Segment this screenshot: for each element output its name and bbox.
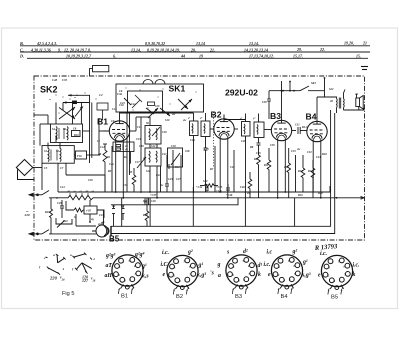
- v-wire 112: [111, 146, 113, 192]
- extra mid box with trimmer: [168, 148, 183, 167]
- socket B1: [112, 255, 143, 289]
- v-wire 258 res: [258, 150, 260, 155]
- svg-text:4w: 4w: [296, 148, 300, 151]
- scattered wafer dots: [49, 92, 96, 113]
- svg-text:B4: B4: [306, 112, 317, 122]
- frame border: [34, 76, 365, 240]
- svg-text:C20: C20: [151, 200, 156, 203]
- SK1 enclosure: [116, 80, 204, 113]
- Fig5 switch right (120/127V): [74, 254, 92, 273]
- osc coil box bottom: [145, 148, 161, 166]
- svg-text:4: 4: [62, 267, 65, 271]
- svg-text:S11: S11: [146, 170, 151, 173]
- SK1 switch arms: [124, 98, 192, 118]
- table row line 1: [20, 45, 370, 47]
- svg-text:C24: C24: [190, 139, 195, 142]
- aux switch diagonal: [57, 221, 65, 228]
- trim box 2: [76, 151, 87, 159]
- coil box S1/S2: [42, 146, 87, 164]
- vertical mid drop: [192, 187, 194, 226]
- svg-text:C38: C38: [123, 184, 128, 187]
- IFT1: [190, 113, 214, 192]
- svg-text:e: e: [268, 272, 271, 278]
- mains switch bottom: [42, 230, 49, 234]
- svg-text:C4a: C4a: [131, 103, 136, 106]
- svg-text:4a: 4a: [72, 191, 76, 194]
- svg-text:C2a: C2a: [109, 163, 114, 166]
- bus y=95.3: [68, 94, 90, 96]
- verticals SK2: [72, 104, 74, 125]
- svg-text:k,s: k,s: [142, 274, 149, 280]
- extra SK1 diagonals: [132, 95, 142, 108]
- svg-text:C27: C27: [176, 178, 181, 181]
- X switch arm 1: [59, 108, 75, 120]
- connecting wires left block: [34, 124, 109, 192]
- mains lead bottom: [29, 233, 42, 235]
- svg-text:C43: C43: [99, 214, 104, 217]
- svg-text:S10: S10: [165, 119, 170, 122]
- B1 wires: [103, 113, 194, 198]
- switch shaft dotted link: [213, 112, 215, 167]
- svg-text:B2: B2: [211, 110, 222, 120]
- coil 4: [60, 148, 61, 162]
- coupling cap: [298, 127, 307, 134]
- tube B1: [109, 121, 129, 141]
- svg-text:C18: C18: [171, 145, 176, 148]
- mains lead top: [29, 191, 49, 236]
- switch arrowheads: [63, 94, 83, 119]
- svg-text:22.: 22.: [319, 47, 325, 52]
- svg-text:20.: 20.: [190, 47, 196, 52]
- svg-text:C31: C31: [295, 124, 300, 127]
- svg-text:e: e: [318, 273, 321, 279]
- tap box on bus: [73, 101, 77, 104]
- svg-text:C48: C48: [52, 78, 58, 82]
- svg-text:17,13,74,18,12.: 17,13,74,18,12.: [249, 54, 274, 59]
- svg-text:C30: C30: [270, 144, 275, 147]
- bus B y=197.8: [49, 197, 68, 199]
- socket B2: [167, 255, 198, 289]
- svg-text:S19: S19: [155, 105, 160, 108]
- mains voltage label: [24, 210, 30, 218]
- svg-text:S14: S14: [175, 166, 180, 169]
- svg-text:4'': 4'': [199, 117, 203, 120]
- svg-text:26: 26: [92, 279, 96, 282]
- svg-text:4R: 4R: [97, 153, 101, 156]
- svg-text:19,20,: 19,20,: [344, 41, 354, 46]
- svg-text:d¹: d¹: [258, 263, 263, 269]
- svg-text:14,13,28,13,14: 14,13,28,13,14: [244, 47, 268, 52]
- diag arm: [75, 107, 83, 117]
- extra scattered tiny labels for texture: [56, 82, 334, 226]
- osc coil box top: [145, 126, 161, 145]
- v-wire 160: [160, 166, 162, 192]
- svg-text:R19: R19: [298, 194, 303, 197]
- svg-text:12,: 12,: [64, 47, 69, 52]
- tube B5: [92, 222, 111, 237]
- antenna plug diamond: [16, 160, 34, 180]
- svg-text:R21: R21: [45, 211, 50, 214]
- svg-text:g²: g²: [187, 250, 193, 256]
- wires above B5: [121, 198, 123, 227]
- svg-text:C22: C22: [156, 174, 161, 177]
- transformer S21: [336, 90, 365, 114]
- svg-text:4 65: 4 65: [85, 210, 91, 213]
- barretter ticks and labels: [70, 193, 88, 196]
- svg-text:4,30,11,3,36: 4,30,11,3,36: [30, 47, 51, 52]
- svg-text:B3: B3: [270, 111, 281, 121]
- svg-text:C13: C13: [112, 108, 117, 111]
- svg-text:S40: S40: [203, 180, 208, 183]
- svg-text:+C45: +C45: [216, 186, 223, 189]
- svg-text:F16: F16: [77, 155, 82, 158]
- svg-text:D.: D.: [19, 54, 24, 59]
- tube B3: [271, 120, 291, 140]
- svg-text:i.C.: i.C.: [161, 262, 169, 268]
- svg-text:4g: 4g: [90, 218, 94, 221]
- svg-text:k,g³: k,g³: [197, 273, 206, 279]
- svg-text:C16: C16: [139, 145, 144, 148]
- svg-text:48: 48: [124, 149, 128, 152]
- wire: [90, 69, 93, 76]
- svg-text:C2: C2: [99, 93, 103, 97]
- bus A y=192: [58, 191, 331, 193]
- svg-text:292U-02: 292U-02: [225, 88, 258, 98]
- svg-text:4': 4': [187, 117, 190, 120]
- svg-text:4x: 4x: [246, 192, 250, 195]
- v-wire 288.7 res: [288, 160, 290, 163]
- socket B3: [226, 255, 257, 289]
- svg-text:C39: C39: [88, 179, 93, 182]
- scattered tiny labels in mid area: [108, 150, 321, 204]
- svg-text:S12: S12: [151, 145, 156, 148]
- svg-text:C26: C26: [230, 166, 235, 169]
- svg-text:220: 220: [49, 276, 58, 281]
- v-wire 215: [214, 146, 216, 192]
- svg-text:k: k: [258, 272, 261, 278]
- svg-text:B4: B4: [281, 294, 289, 300]
- svg-text:B1: B1: [121, 294, 128, 300]
- svg-text:21: 21: [362, 41, 367, 46]
- horizontal resistor mid: [205, 184, 215, 188]
- B3 wires: [278, 81, 296, 198]
- svg-text:48: 48: [329, 100, 333, 103]
- bus y=90.7: [269, 90, 300, 92]
- svg-text:220: 220: [24, 213, 30, 217]
- svg-text:g: g: [217, 262, 221, 268]
- svg-text:10,19,29,3,12,7: 10,19,29,3,12,7: [66, 54, 92, 59]
- v-wire 167 cap: [166, 176, 168, 184]
- svg-text:+C46: +C46: [226, 194, 233, 197]
- coil box S3/S4: [51, 124, 83, 143]
- v-wire 181: [180, 155, 182, 192]
- coil 1: [56, 127, 57, 141]
- svg-text:+14b: +14b: [216, 190, 222, 193]
- arrow at right of bus B: [361, 196, 365, 199]
- v-wire 330: [329, 186, 331, 192]
- svg-text:B3: B3: [235, 294, 242, 300]
- svg-text:4': 4': [239, 118, 242, 121]
- bus D nested: [111, 110, 331, 226]
- svg-text:C.: C.: [20, 47, 24, 52]
- svg-text:R18: R18: [322, 153, 327, 156]
- svg-text:aT: aT: [106, 263, 113, 269]
- bus y=102.5: [63, 102, 90, 104]
- svg-text:R14: R14: [302, 126, 307, 129]
- IFT2: [242, 114, 272, 193]
- small box left of B1: [97, 103, 108, 110]
- caps pair: [60, 205, 64, 207]
- svg-text:+C44: +C44: [196, 186, 203, 189]
- coil 2: [67, 127, 68, 141]
- small parts on bus A: [143, 184, 230, 205]
- dropper box: [50, 198, 105, 234]
- svg-text:13,14,: 13,14,: [131, 47, 141, 52]
- svg-text:R13: R13: [284, 166, 289, 169]
- svg-text:R16: R16: [308, 170, 313, 173]
- table row line 3: [27, 57, 368, 59]
- svg-text:4F: 4F: [84, 191, 88, 194]
- svg-text:28,14,19,7,8.: 28,14,19,7,8.: [69, 47, 91, 52]
- svg-text:15.: 15.: [356, 53, 361, 58]
- v-wire 313 res: [312, 165, 314, 168]
- v-wire 303 res: [302, 165, 304, 168]
- svg-text:SK2: SK2: [40, 85, 58, 95]
- svg-text:S22: S22: [329, 88, 334, 91]
- svg-text:i.c.: i.c.: [162, 250, 169, 256]
- svg-text:13,14.: 13,14.: [249, 41, 259, 46]
- svg-text:44: 44: [78, 191, 82, 194]
- svg-text:k,g³: k,g³: [302, 273, 311, 279]
- svg-text:4w: 4w: [171, 113, 175, 116]
- svg-text:a: a: [218, 273, 221, 279]
- drop to frame dot: [289, 82, 291, 91]
- svg-text:C28: C28: [241, 140, 246, 143]
- trimmer arrows osc: [137, 127, 160, 168]
- socket B4: [271, 255, 302, 289]
- v-wire 173: [172, 150, 174, 192]
- svg-text:13,14: 13,14: [196, 41, 205, 46]
- svg-text:R11: R11: [264, 164, 269, 167]
- svg-text:C14: C14: [137, 126, 142, 129]
- svg-text:C34: C34: [316, 156, 321, 159]
- svg-text:e: e: [163, 272, 166, 278]
- svg-text:g¹: g¹: [141, 264, 147, 270]
- table row line 2: [20, 51, 370, 53]
- small trim box: [72, 131, 81, 137]
- svg-text:127: 127: [82, 278, 89, 283]
- svg-text:R15: R15: [298, 170, 303, 173]
- bus E y=233.9: [49, 233, 96, 235]
- tube B2: [214, 119, 234, 139]
- component box under B1: [113, 142, 134, 164]
- speaker: [356, 94, 363, 110]
- connection dots bottom: [89, 191, 337, 223]
- svg-text:C23: C23: [168, 178, 173, 181]
- hop wire y=204.8: [111, 198, 238, 205]
- svg-text:4d: 4d: [90, 191, 94, 194]
- small R left: [50, 209, 53, 218]
- svg-text:Fig 5: Fig 5: [62, 291, 74, 297]
- vertical drop x=269 w/ cap: [268, 91, 270, 99]
- svg-text:a: a: [53, 253, 55, 257]
- vertical resistor 250: [249, 172, 251, 179]
- svg-text:6.: 6.: [113, 54, 116, 59]
- osc wires: [127, 112, 157, 198]
- svg-text:29.: 29.: [296, 47, 302, 52]
- svg-text:C43: C43: [120, 102, 125, 105]
- svg-text:26: 26: [61, 278, 66, 282]
- svg-text:B.: B.: [19, 41, 24, 46]
- svg-text:C21: C21: [162, 153, 167, 156]
- svg-text:C44: C44: [60, 186, 65, 189]
- svg-text:B5: B5: [331, 295, 338, 301]
- svg-text:40: 40: [66, 191, 70, 194]
- svg-text:C32: C32: [307, 151, 312, 154]
- svg-text:i.c.: i.c.: [353, 263, 360, 269]
- svg-text:C33: C33: [291, 150, 296, 153]
- inner box: [128, 91, 163, 112]
- svg-text:aH: aH: [105, 273, 113, 279]
- svg-text:S18: S18: [185, 150, 190, 153]
- svg-text:R17: R17: [143, 214, 148, 217]
- svg-text:4w: 4w: [182, 119, 186, 122]
- coil 3: [48, 148, 49, 162]
- svg-text:2a: 2a: [97, 223, 101, 226]
- svg-text:+C37: +C37: [150, 194, 157, 197]
- socket B5: [321, 255, 352, 289]
- lamp box: [93, 66, 109, 72]
- mains switch top: [42, 191, 49, 195]
- svg-text:44: 44: [124, 145, 128, 148]
- tube B4: [307, 121, 327, 141]
- svg-text:g²g⁴: g²g⁴: [134, 252, 145, 258]
- svg-text:C35: C35: [62, 78, 68, 82]
- svg-text:C17: C17: [135, 161, 140, 164]
- svg-text:C25: C25: [204, 148, 209, 151]
- R/C under B1: [103, 144, 107, 192]
- svg-text:i.c.: i.c.: [264, 262, 271, 268]
- svg-text:SK3: SK3: [311, 82, 316, 85]
- svg-text:9,: 9,: [58, 47, 61, 52]
- svg-text:i.c: i.c: [267, 250, 273, 256]
- svg-text:21.: 21.: [209, 47, 215, 52]
- vertical to transformer: [325, 78, 336, 98]
- svg-text:C40: C40: [57, 202, 62, 205]
- svg-text:42,5,4,2,4,3.: 42,5,4,2,4,3.: [36, 41, 57, 46]
- svg-text:44: 44: [180, 54, 185, 59]
- v-wire 295: [295, 155, 297, 192]
- B2 wires: [220, 115, 245, 198]
- svg-text:g¹: g¹: [198, 263, 204, 269]
- svg-text:C15: C15: [136, 138, 141, 141]
- svg-text:8,19,20,18,18,14,19.: 8,19,20,18,18,14,19.: [147, 47, 180, 52]
- svg-text:k: k: [353, 272, 356, 278]
- svg-text:g²g³: g²g³: [105, 253, 116, 259]
- svg-text:a: a: [70, 253, 72, 257]
- wire jogs: [56, 218, 72, 224]
- switch SK3: [300, 86, 309, 91]
- svg-text:R20: R20: [318, 192, 323, 195]
- svg-text:C46: C46: [240, 186, 245, 189]
- svg-text:4w: 4w: [159, 184, 163, 187]
- Fig5 switch left (220V): [46, 255, 65, 274]
- B4 wires: [313, 97, 321, 198]
- v-wire 131 resistor: [133, 168, 135, 175]
- tiny labels above frame: [52, 78, 123, 97]
- barretter zigzag: [68, 195, 93, 200]
- v-wire 234: [233, 150, 235, 192]
- tiny value labels left block: [44, 128, 82, 171]
- svg-text:g²: g²: [292, 249, 298, 255]
- svg-text:B2: B2: [176, 294, 183, 300]
- v-wire 269 res: [268, 152, 270, 160]
- scallops on top: [143, 80, 153, 85]
- svg-text:R22: R22: [63, 220, 68, 223]
- svg-text:8,9,30,70,32: 8,9,30,70,32: [145, 41, 165, 46]
- svg-text:4: 4: [92, 257, 95, 261]
- svg-text:g¹: g¹: [302, 260, 308, 266]
- chassis symbol: [361, 67, 368, 70]
- svg-text:B5: B5: [109, 235, 120, 244]
- svg-text:C20: C20: [162, 131, 167, 134]
- svg-text:C30: C30: [262, 101, 267, 104]
- svg-text:19: 19: [199, 54, 203, 59]
- svg-text:C12: C12: [100, 146, 105, 149]
- svg-text:SK1: SK1: [169, 83, 186, 93]
- svg-text:i.c.: i.c.: [320, 251, 327, 257]
- svg-text:d²: d²: [243, 249, 248, 255]
- svg-text:15,17.: 15,17.: [293, 54, 303, 59]
- svg-text:4'': 4'': [252, 118, 256, 121]
- svg-text:R10: R10: [74, 134, 79, 137]
